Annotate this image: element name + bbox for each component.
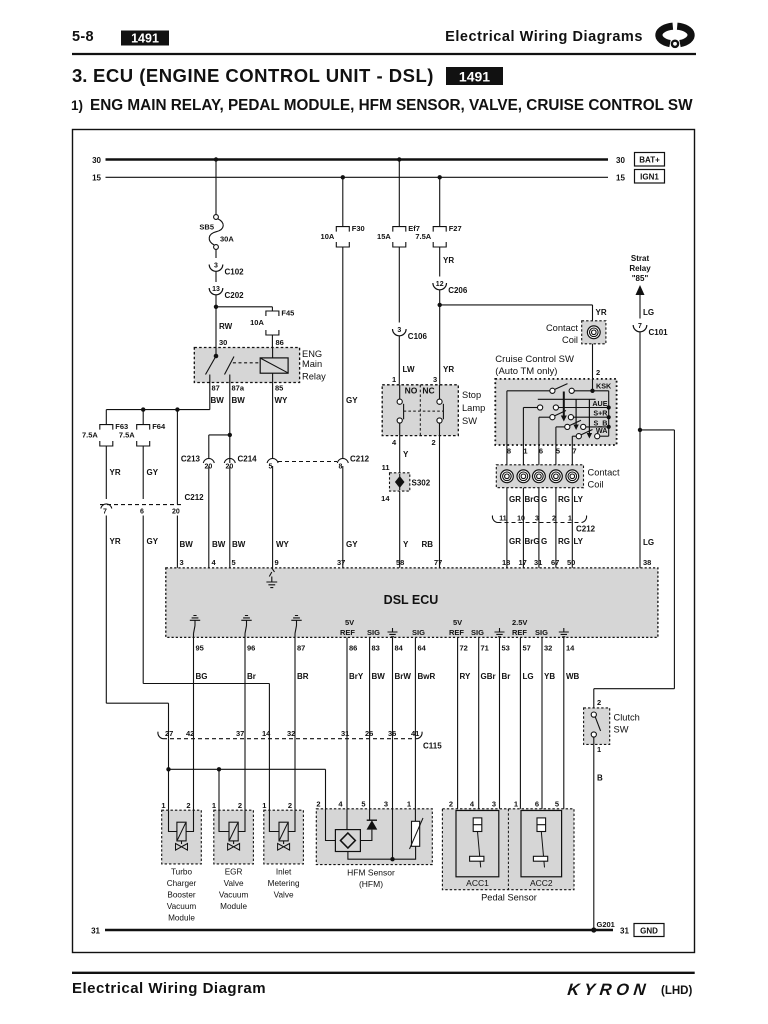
wire down to F63 (105, 410, 107, 425)
Cruise Control SW box (495, 379, 616, 445)
C212 pin 8 arc (337, 458, 348, 463)
svg-text:Contact: Contact (588, 468, 620, 478)
junction LG/clutch branch (638, 428, 642, 432)
svg-text:S302: S302 (412, 479, 431, 488)
svg-text:2.5V: 2.5V (512, 618, 527, 627)
svg-text:38: 38 (643, 558, 651, 567)
wire GY F30 to C212 pin8 (342, 247, 344, 459)
pedal potentiometer ACC2 (521, 811, 562, 877)
svg-text:27: 27 (165, 729, 173, 738)
svg-text:G201: G201 (597, 920, 615, 929)
svg-text:10: 10 (517, 516, 525, 523)
wire Y stoplamp4 to S302 (399, 436, 401, 474)
svg-text:8: 8 (507, 447, 511, 456)
svg-text:37: 37 (236, 729, 244, 738)
wire SB5 to C102 (215, 249, 217, 258)
svg-text:Coil: Coil (562, 335, 578, 345)
svg-text:Vacuum: Vacuum (219, 891, 249, 900)
svg-text:(HFM): (HFM) (359, 879, 383, 889)
svg-text:ECU (ENGINE CONTROL UNIT - DSL: ECU (ENGINE CONTROL UNIT - DSL) (93, 65, 434, 86)
svg-text:18: 18 (502, 558, 510, 567)
svg-text:ENG: ENG (302, 349, 322, 359)
Stop Lamp SW box (382, 385, 458, 436)
fuse F27 7.5A (433, 227, 446, 232)
svg-text:SIG: SIG (367, 628, 380, 637)
svg-text:77: 77 (434, 558, 442, 567)
bus 30 (BAT+) (106, 158, 609, 161)
svg-text:31: 31 (534, 558, 542, 567)
svg-text:2: 2 (597, 698, 601, 707)
junction bus15/F30 (341, 175, 345, 179)
svg-text:SW: SW (614, 725, 629, 735)
svg-text:11: 11 (499, 516, 507, 523)
svg-text:ENG MAIN RELAY, PEDAL MODULE,: ENG MAIN RELAY, PEDAL MODULE, HFM SENSOR… (90, 97, 693, 114)
svg-text:3.: 3. (72, 65, 87, 86)
splice S302 (390, 473, 410, 491)
svg-text:RY: RY (460, 672, 471, 681)
svg-text:YR: YR (443, 365, 454, 374)
svg-text:84: 84 (395, 644, 404, 653)
wire ECU to pedal sensor (478, 637, 480, 810)
junction bus15/F27 (438, 175, 442, 179)
svg-text:2: 2 (596, 368, 600, 377)
wire RB stoplamp2 to ECU pin77 (439, 436, 441, 568)
wire Ef7 to C106 (398, 247, 400, 323)
relay switch contacts (215, 348, 217, 357)
wire LW C106 to stop lamp sw (398, 336, 400, 385)
svg-text:3: 3 (397, 327, 401, 334)
svg-text:Relay: Relay (629, 264, 651, 273)
HFM Sensor box (316, 809, 432, 865)
svg-text:4: 4 (338, 800, 343, 809)
svg-text:32: 32 (287, 729, 295, 738)
svg-text:15: 15 (616, 174, 625, 183)
wire BwR to HFM pin1 (414, 734, 416, 809)
ENG Main Relay box (194, 348, 299, 383)
svg-text:BW: BW (372, 672, 386, 681)
svg-text:BwR: BwR (418, 672, 436, 681)
wire C115-27 to turbo pin1 (168, 739, 170, 811)
GND terminal box (634, 924, 664, 937)
bus 31 (ground) (105, 929, 613, 932)
connector C202 pin 13 (209, 288, 223, 295)
clutch branch horizontal 2 (594, 688, 675, 690)
svg-text:WY: WY (276, 540, 290, 549)
svg-text:13: 13 (212, 286, 220, 293)
connector C102 pin 3 (209, 265, 223, 272)
connector C212 row (pins 7 6 20) (100, 504, 183, 506)
fuse F64 7.5A (137, 425, 150, 430)
cruise wire down through coil to ECU (555, 445, 557, 568)
svg-text:12: 12 (436, 281, 444, 288)
turbo charger booster vacuum module (162, 810, 202, 864)
wire ECU to pedal sensor (519, 637, 521, 810)
svg-text:GY: GY (147, 537, 159, 546)
svg-text:Valve: Valve (274, 891, 294, 900)
svg-text:58: 58 (396, 558, 404, 567)
svg-text:C214: C214 (238, 455, 258, 464)
cruise wire down through coil to ECU (571, 445, 573, 568)
svg-text:BW: BW (212, 540, 226, 549)
YR wire turn (106, 702, 168, 704)
BAT+ terminal box (635, 153, 665, 167)
svg-text:Inlet: Inlet (276, 868, 292, 877)
svg-text:Pedal Sensor: Pedal Sensor (481, 893, 537, 903)
svg-text:87a: 87a (232, 384, 245, 393)
svg-text:Module: Module (220, 902, 247, 911)
svg-text:10A: 10A (321, 232, 335, 241)
svg-text:30: 30 (219, 338, 227, 347)
wire YR C212 down left side (105, 516, 107, 704)
contact coil winding (517, 470, 530, 483)
svg-text:53: 53 (502, 644, 510, 653)
junction G201 (591, 927, 596, 932)
svg-text:Charger: Charger (167, 879, 197, 888)
junction YR / contact coil branch (438, 303, 442, 307)
svg-text:86: 86 (349, 644, 357, 653)
svg-text:Contact: Contact (546, 323, 578, 333)
svg-text:LG: LG (523, 672, 534, 681)
wire ECU to pedal sensor (457, 637, 459, 810)
SsangYong logo (659, 26, 691, 47)
diagram border frame (73, 130, 695, 953)
svg-text:YB: YB (544, 672, 555, 681)
svg-text:C115: C115 (423, 742, 442, 751)
wire rail to EGR pin1 (218, 769, 220, 810)
wire GY F64 to C212 pin6 (142, 446, 144, 499)
svg-text:71: 71 (481, 644, 489, 653)
connector C213 pin 20 (203, 458, 214, 463)
svg-text:(LHD): (LHD) (661, 985, 692, 997)
svg-text:BrW: BrW (395, 672, 412, 681)
wire ECU to C115 (392, 637, 394, 734)
svg-text:14: 14 (566, 644, 575, 653)
rail to fuses F63/F64 (106, 409, 210, 411)
svg-text:7: 7 (572, 447, 576, 456)
svg-text:67: 67 (551, 558, 559, 567)
svg-text:1: 1 (161, 801, 165, 810)
stop lamp mech link (404, 410, 444, 412)
section black tag 1491 (446, 67, 503, 85)
svg-text:9: 9 (275, 558, 279, 567)
pedal sensor divider (507, 809, 509, 890)
junction bus30/Ef7 (397, 157, 401, 161)
wire ECU to C115 (193, 637, 195, 734)
svg-text:Br: Br (247, 672, 256, 681)
svg-text:2: 2 (288, 801, 292, 810)
C212 dashed row pin5-pin8 (278, 461, 337, 463)
ECU pin9 internal ground (272, 568, 275, 572)
svg-text:F30: F30 (352, 224, 365, 233)
cruise pin7 drop (571, 436, 573, 445)
svg-text:1: 1 (523, 447, 527, 456)
connector C101 pin 7 (633, 325, 647, 332)
svg-text:5: 5 (232, 558, 236, 567)
Pedal Sensor outer box (442, 809, 574, 890)
cruise pin5 drop (555, 427, 557, 445)
svg-text:37: 37 (337, 558, 345, 567)
svg-text:GR: GR (509, 537, 521, 546)
svg-text:EGR: EGR (225, 868, 243, 877)
svg-text:1491: 1491 (131, 32, 159, 46)
svg-text:BW: BW (232, 540, 246, 549)
svg-text:30: 30 (92, 156, 101, 165)
svg-text:LW: LW (403, 365, 415, 374)
junction rail/F64 (141, 407, 145, 411)
Clutch SW box (584, 708, 610, 745)
svg-text:Turbo: Turbo (171, 868, 193, 877)
EGR valve vacuum module (214, 810, 254, 864)
svg-text:(Auto TM only): (Auto TM only) (495, 366, 557, 377)
GY wire down to C115 pin14 (268, 684, 270, 739)
wire coil to 85 (272, 373, 274, 382)
svg-text:3: 3 (384, 800, 388, 809)
svg-text:IGN1: IGN1 (640, 173, 659, 182)
svg-text:87: 87 (297, 644, 305, 653)
fuse F45 10A (266, 311, 279, 316)
svg-text:Metering: Metering (268, 879, 300, 888)
wire C115-14 to inlet pin1 (268, 739, 270, 811)
cruise pin8 drop (506, 391, 508, 445)
ground (inverted) (241, 616, 251, 626)
wire BW from pin 87 (209, 383, 211, 410)
svg-text:Main: Main (302, 359, 322, 369)
bus 15 (IGN1) (106, 176, 609, 178)
wire ECU to pedal sensor (563, 637, 565, 810)
svg-text:Br: Br (502, 672, 511, 681)
svg-text:1: 1 (262, 801, 266, 810)
svg-text:C102: C102 (225, 268, 245, 277)
svg-text:83: 83 (372, 644, 380, 653)
stop lamp NC contact (439, 385, 441, 399)
cruise KSK switch row (592, 379, 594, 391)
svg-text:32: 32 (544, 644, 552, 653)
wire BW from pin 87a to C214 (229, 383, 231, 464)
cruise right-bus junction dots (607, 405, 611, 409)
HFM internal bottom rail (348, 846, 416, 859)
cruise wire down through coil to ECU (538, 445, 540, 568)
footer rule (72, 972, 695, 974)
wire B clutch to G201 (593, 737, 595, 930)
svg-text:96: 96 (247, 644, 255, 653)
wire ECU to pedal sensor (541, 637, 543, 810)
svg-text:5: 5 (555, 800, 559, 809)
wire F45 to relay pin 86 (271, 335, 273, 348)
cruise wire down through coil to ECU (506, 445, 508, 568)
svg-text:6: 6 (140, 509, 144, 516)
svg-text:G: G (541, 495, 547, 504)
svg-text:C101: C101 (649, 328, 669, 337)
wire YR F63 to C212 pin7 (105, 446, 107, 499)
wire ECU to pedal sensor (499, 637, 501, 810)
svg-text:8: 8 (339, 464, 343, 471)
wire YR C206 to stop lamp sw (439, 290, 441, 385)
arrow to strat relay (636, 285, 645, 295)
branch to C213 (209, 434, 230, 436)
svg-text:Coil: Coil (588, 480, 604, 490)
svg-text:Vacuum: Vacuum (167, 902, 197, 911)
contact coil winding (566, 470, 579, 483)
svg-text:31: 31 (620, 926, 629, 935)
cruise wire down through coil to ECU (522, 445, 524, 568)
svg-text:BrG: BrG (525, 495, 540, 504)
svg-text:2: 2 (449, 800, 453, 809)
svg-text:Booster: Booster (167, 891, 195, 900)
wire 86 into coil (272, 348, 274, 358)
relay coil (233, 362, 260, 364)
wire bus30 to SB5 (215, 160, 217, 215)
svg-text:85: 85 (275, 384, 283, 393)
pedal potentiometer ACC1 (456, 811, 499, 877)
svg-text:BG: BG (196, 672, 208, 681)
header rule (72, 53, 696, 55)
svg-text:7: 7 (638, 323, 642, 330)
wire RW C202 to relay pin 30 (215, 295, 217, 348)
svg-text:HFM Sensor: HFM Sensor (347, 868, 395, 878)
wire BW down to C212 pin 20 (176, 410, 178, 505)
svg-text:BW: BW (180, 540, 194, 549)
wire ECU to C115 (294, 637, 296, 734)
svg-text:GR: GR (509, 495, 521, 504)
svg-text:F45: F45 (281, 309, 294, 318)
svg-text:C206: C206 (448, 286, 468, 295)
svg-text:Strat: Strat (631, 254, 650, 263)
svg-text:3: 3 (535, 516, 539, 523)
svg-text:5: 5 (361, 800, 365, 809)
svg-text:1: 1 (514, 800, 518, 809)
stop lamp divider (419, 385, 421, 436)
svg-text:5V: 5V (453, 618, 462, 627)
cruise right bus (608, 391, 610, 436)
wire down to clutch sw (593, 689, 595, 708)
svg-text:Y: Y (403, 540, 409, 549)
svg-text:50: 50 (567, 558, 575, 567)
ECU internal grounds pins 84/53/14 (388, 628, 398, 637)
wire GY C212 down left side (142, 516, 144, 684)
svg-text:C212: C212 (185, 493, 205, 502)
svg-text:REF: REF (512, 628, 527, 637)
svg-text:6: 6 (539, 447, 543, 456)
contact coil winding (533, 470, 546, 483)
svg-text:C106: C106 (408, 332, 428, 341)
wire BrW to HFM pin3 (392, 734, 394, 809)
fusible link SB5 30A (214, 215, 219, 220)
wire BG to turbo pin2 (193, 734, 195, 810)
HFM internal pin stubs (347, 809, 415, 859)
wire ECU to C115 (414, 637, 416, 734)
svg-text:REF: REF (340, 628, 355, 637)
svg-text:NO: NO (405, 386, 418, 396)
svg-text:10A: 10A (250, 318, 264, 327)
svg-text:15A: 15A (377, 232, 391, 241)
svg-text:7.5A: 7.5A (82, 431, 98, 440)
svg-text:Clutch: Clutch (614, 713, 640, 723)
stop lamp NO contact (399, 385, 401, 399)
svg-text:7: 7 (103, 509, 107, 516)
wire BW to HFM pin5 (369, 734, 371, 809)
svg-text:11: 11 (382, 463, 390, 472)
wire ECU to C115 (346, 637, 348, 734)
svg-text:31: 31 (91, 926, 100, 935)
wire down to C213 (208, 435, 210, 459)
wire F27 to C206 (439, 247, 441, 277)
Contact Coil (lower) box (496, 465, 583, 488)
svg-text:3: 3 (180, 558, 184, 567)
YR wire down to C115 pin27 (168, 703, 170, 739)
wire branch to F45 (216, 306, 272, 308)
contact coil winding (501, 470, 514, 483)
svg-text:LG: LG (643, 308, 654, 317)
wire down to F45 (271, 307, 273, 311)
wire Br to EGR pin2 (244, 734, 246, 810)
wire BR to inlet pin2 (294, 734, 296, 810)
wire coil to cruise sw pin2 (592, 344, 594, 379)
svg-text:14: 14 (381, 494, 390, 503)
fuse F30 10A (336, 227, 349, 232)
svg-text:RG: RG (558, 537, 570, 546)
svg-text:57: 57 (523, 644, 531, 653)
cruise pin1 drop (522, 408, 524, 446)
svg-text:2: 2 (432, 438, 436, 447)
svg-text:Valve: Valve (224, 879, 244, 888)
svg-text:WY: WY (275, 396, 289, 405)
svg-text:95: 95 (196, 644, 204, 653)
svg-text:YR: YR (110, 537, 121, 546)
wire rail to HFM pin2 (325, 769, 327, 809)
contact coil winding (550, 470, 563, 483)
svg-text:86: 86 (276, 338, 284, 347)
svg-text:Stop: Stop (462, 390, 481, 400)
svg-text:BrG: BrG (525, 537, 540, 546)
svg-text:SIG: SIG (471, 628, 484, 637)
svg-text:RB: RB (422, 540, 434, 549)
svg-text:"85": "85" (632, 274, 649, 283)
svg-text:YR: YR (110, 468, 121, 477)
junction KSK/pin2 (590, 389, 594, 393)
svg-text:Lamp: Lamp (462, 403, 485, 413)
svg-text:4: 4 (212, 558, 217, 567)
ground (inverted) (190, 616, 200, 626)
HFM diode (367, 819, 377, 821)
wire ECU to C115 (244, 637, 246, 734)
svg-text:BR: BR (297, 672, 309, 681)
C212 pin 5 arc (267, 458, 278, 463)
svg-text:G: G (541, 537, 547, 546)
svg-text:C202: C202 (225, 291, 245, 300)
svg-text:5V: 5V (345, 618, 354, 627)
cruise S+R row (539, 416, 550, 418)
svg-text:1: 1 (597, 745, 601, 754)
cruise actuation arrows (563, 392, 565, 417)
svg-text:2: 2 (238, 801, 242, 810)
svg-text:3: 3 (214, 263, 218, 270)
svg-text:1: 1 (392, 375, 396, 384)
svg-text:AUE: AUE (592, 399, 607, 408)
supply rail to valves/HFM (169, 768, 326, 770)
svg-text:WB: WB (566, 672, 580, 681)
wire bus15 to F27 (439, 177, 441, 226)
wire BW C214 to ECU pin5 (229, 466, 231, 568)
junction 87a/C213 branch (228, 433, 232, 437)
svg-text:SIG: SIG (412, 628, 425, 637)
svg-text:BrY: BrY (349, 672, 364, 681)
wire WY to ECU pin9 (272, 466, 274, 568)
svg-text:Electrical Wiring Diagrams: Electrical Wiring Diagrams (445, 29, 643, 45)
svg-text:BW: BW (211, 396, 225, 405)
junction HFM pin3/rail (390, 857, 394, 861)
junction bus30/SB5 (214, 157, 218, 161)
svg-text:LY: LY (574, 537, 584, 546)
